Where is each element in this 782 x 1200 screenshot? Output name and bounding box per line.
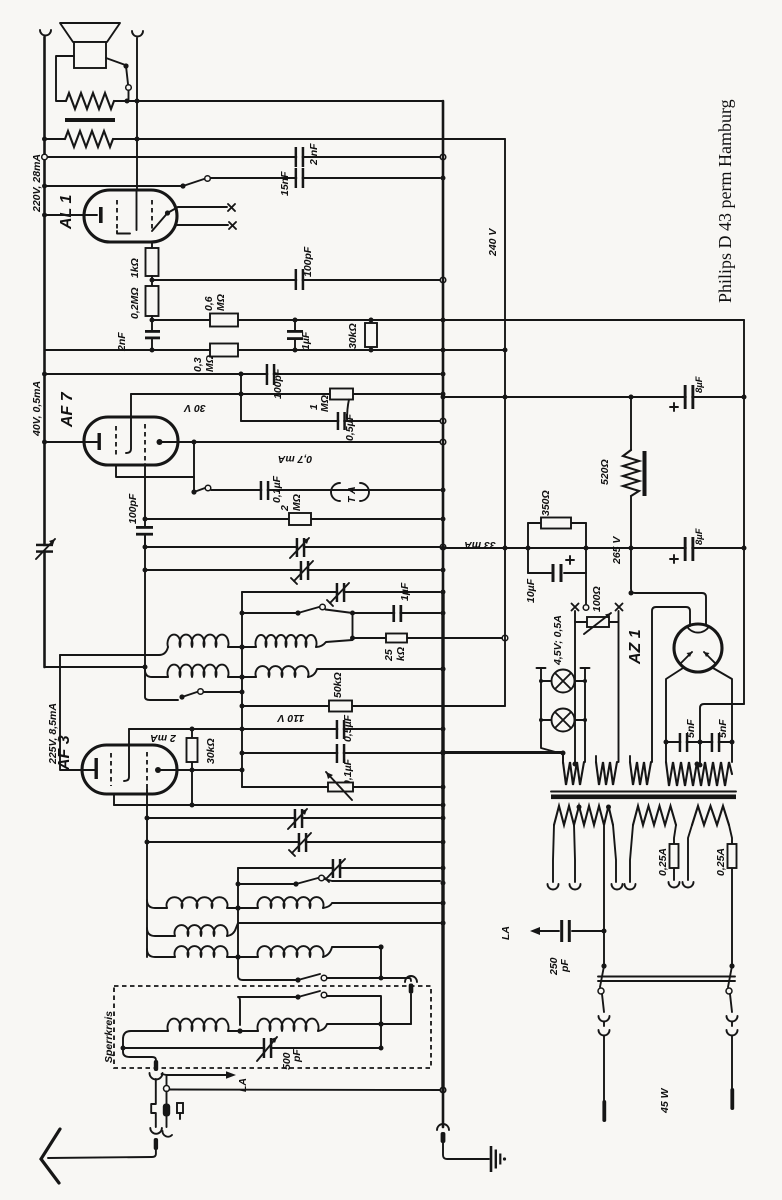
node bus443 y884 (441, 881, 446, 886)
coil L1b exit (316, 640, 353, 647)
svg-text:8µF: 8µF (694, 528, 705, 545)
wire x563 to winding (562, 753, 564, 763)
node open bus443 y442 (440, 439, 446, 445)
svg-text:1kΩ: 1kΩ (129, 258, 141, 278)
antenna socket hook (162, 1131, 172, 1137)
wire y638 (353, 637, 506, 639)
svg-text:30kΩ: 30kΩ (347, 323, 359, 349)
dashed box Sperrkreis (114, 986, 431, 1068)
fuse 0.25A left (670, 844, 679, 868)
svg-text:25: 25 (383, 649, 395, 662)
capacitor 5nF b (711, 733, 721, 752)
svg-text:0,5µF: 0,5µF (344, 413, 356, 441)
x mark a (228, 204, 235, 211)
cathode bar AF3 (95, 758, 98, 779)
node x145 y519 (143, 517, 148, 522)
coil L3b exit wire y904 (323, 903, 440, 908)
tube AZ1 (674, 624, 722, 672)
node bus443 y786 (441, 785, 446, 790)
mains pin left (602, 1100, 606, 1122)
node y742 x666 (664, 740, 669, 745)
wire y394 diode load (131, 393, 440, 395)
wire y178 (211, 177, 441, 179)
wire x145 down (144, 536, 146, 677)
switch pickup top (180, 176, 210, 189)
winding P2 primary (633, 806, 676, 825)
cup terminal 2 (570, 884, 581, 890)
node R1/switch (125, 99, 130, 104)
node x744 y548 (742, 546, 747, 551)
resistor hum coil (66, 93, 114, 109)
antenna plug pin2 (154, 1138, 158, 1150)
wire humbucking loop (56, 56, 74, 101)
grid dashes AL1 g1 (116, 200, 118, 231)
node y753 x563 (561, 751, 566, 756)
node open bus443 y280 (440, 277, 446, 283)
switch wave2 (238, 991, 381, 1025)
wire x241 394-421 (240, 374, 242, 421)
antenna side element (177, 1103, 183, 1119)
node bus443 y570 (441, 568, 446, 573)
node x137 y139 (135, 137, 140, 142)
P2 lead left (630, 825, 633, 882)
svg-text:10µF: 10µF (525, 578, 537, 603)
winding W1 heater (563, 762, 584, 785)
antenna socket cup2 (150, 1128, 162, 1134)
svg-text:0,25A: 0,25A (715, 848, 727, 876)
svg-text:LA: LA (500, 926, 512, 940)
wire AF7 grid leak (144, 464, 146, 519)
wire anode AF7 (160, 441, 441, 443)
node bus44 y139 (42, 137, 47, 142)
svg-text:15nF: 15nF (279, 171, 291, 196)
antenna feed x123 (123, 1048, 156, 1060)
LA arrowhead top (226, 1071, 236, 1079)
wire y706 (242, 705, 505, 707)
node bus505 y350 (503, 348, 508, 353)
wire rowD mid to switch1 (238, 957, 298, 980)
wire heater right x618 (618, 611, 620, 762)
switch band rowB (145, 677, 242, 700)
node bus443 y519 (441, 517, 446, 522)
wire y818 (147, 817, 440, 819)
node x238 y884 (236, 882, 241, 887)
wire y101 to bus (114, 100, 443, 102)
resistor 0.2M (146, 286, 159, 316)
ground symbol (491, 1146, 506, 1172)
wire heater AL1 a (178, 206, 227, 208)
x mark heater left (572, 604, 579, 611)
node rowB mid (239, 674, 244, 679)
coil L2b (256, 666, 309, 677)
node bracket AF3 (190, 803, 195, 808)
svg-text:MΩ: MΩ (215, 294, 227, 311)
node grid2 AL1 (165, 210, 170, 215)
node x137 y101 (135, 99, 140, 104)
label 250pF (548, 957, 571, 976)
varcap y868 (323, 859, 345, 882)
node bus443 y613 (441, 611, 446, 616)
svg-text:8µF: 8µF (694, 376, 705, 393)
svg-text:0,3: 0,3 (192, 357, 204, 372)
wire rowE mid (228, 1030, 258, 1032)
mains pin right (730, 1088, 734, 1110)
wire bus44 to x145 (45, 666, 146, 668)
node x381 y1024 (378, 1021, 383, 1026)
wire antenna column lower (155, 1113, 157, 1127)
switch pickup AF7 (191, 477, 210, 495)
coil L3b (258, 897, 324, 908)
coil L1b (255, 635, 316, 647)
label 1M (308, 395, 331, 412)
svg-text:2: 2 (279, 505, 291, 512)
coil L2a (168, 665, 229, 677)
node y729 x241 (240, 727, 245, 732)
node bus44 y186 (42, 184, 47, 189)
node bus443 y842 (441, 840, 446, 845)
node bus505 y397 (503, 395, 508, 400)
winding W2 (596, 762, 617, 785)
svg-text:kΩ: kΩ (395, 647, 407, 661)
cathode bar AF7 (98, 433, 101, 450)
cup terminal 5 (669, 882, 680, 888)
node rowD mid (235, 954, 240, 959)
switch mains left (598, 963, 607, 994)
wire y931 250pF (537, 930, 604, 932)
coil L5a (175, 946, 228, 957)
grid dashes AF7 g1 (115, 426, 117, 456)
wire y397 (443, 396, 744, 398)
wire x381 1024-1048 (380, 1024, 382, 1048)
LA arrowhead mains (530, 927, 540, 935)
anode line AL1 (136, 190, 138, 230)
switch bandset (295, 604, 325, 615)
capacitor 0.5uF af3 (336, 720, 346, 739)
resistor 520 (623, 397, 647, 548)
wire y1090 to bus (170, 1089, 441, 1092)
svg-text:2 nF: 2 nF (308, 143, 320, 166)
tuning cap left bus (36, 539, 55, 559)
W4 tap node (695, 762, 700, 767)
wire y786 volume (242, 786, 440, 788)
capacitor 100pF af7grid (266, 364, 276, 385)
rheostat 100ohm (575, 613, 618, 634)
anode left AZ1 (681, 652, 692, 663)
wire y350 (45, 349, 506, 351)
node x241 y692 (240, 690, 245, 695)
wire center tap x700 (700, 704, 744, 765)
antenna plug blob (163, 1092, 170, 1128)
wire y280 grid AL1 (152, 279, 440, 281)
P1 tap node a (577, 805, 582, 810)
capacitor 10uF (528, 564, 586, 582)
plus sign 10uF (566, 556, 574, 564)
node bracket AF7 (192, 440, 197, 445)
wire AZ1 anode lead right (713, 668, 732, 762)
plug link bottom (410, 994, 412, 1024)
anode node AF7 (157, 439, 163, 445)
svg-text:0,25A: 0,25A (657, 848, 669, 876)
node x631 y548 (629, 546, 634, 551)
plug pin bar (409, 984, 414, 994)
svg-text:4,5V; 0,5A: 4,5V; 0,5A (552, 615, 564, 666)
grid dashes AL1 g2 (151, 200, 153, 231)
right bus x744 (743, 320, 745, 704)
node y753 x241 (240, 751, 245, 756)
wire y421 (241, 420, 440, 422)
svg-text:0,7 mA: 0,7 mA (278, 453, 312, 465)
wire to LA circle (166, 1075, 168, 1085)
svg-text:1µF: 1µF (300, 331, 312, 350)
wire LA tap (162, 1074, 229, 1075)
wire to antenna arrow (48, 1150, 156, 1158)
wire x60 (60, 655, 95, 770)
node y350 x152 (150, 348, 155, 353)
resistor 1M (330, 389, 353, 400)
mains lead right bottom (731, 1022, 733, 1088)
grid dashes AF3 g2 (146, 752, 148, 789)
node y280 (150, 278, 155, 283)
node x147 y842 (145, 840, 150, 845)
mains plug cups right (727, 1016, 738, 1036)
node x381 y1048 (379, 1046, 384, 1051)
wire y613 b (326, 610, 441, 614)
node bus443 y753 (441, 751, 446, 756)
svg-text:100pF: 100pF (302, 246, 314, 277)
wire AZ1 filament return (652, 607, 690, 762)
node y729 x192 (190, 727, 195, 732)
resistor 0.3M (210, 344, 238, 357)
wire rowC mid (227, 907, 258, 909)
lamp vertical left (537, 668, 560, 753)
tube AL1 envelope (84, 190, 177, 242)
node x631 y397 (629, 395, 634, 400)
capacitor 5nF a (679, 733, 689, 752)
wire y655 osc feed (60, 654, 159, 656)
capacitor 8uF lower (684, 537, 695, 561)
svg-text:AZ 1: AZ 1 (627, 629, 644, 665)
svg-text:T A: T A (346, 486, 358, 503)
tube AF3 envelope (82, 745, 177, 794)
switch speaker (106, 58, 131, 101)
node open bus443 y157 (440, 154, 446, 160)
wire field coil to 240V bus (113, 138, 505, 140)
W1 lead left (562, 752, 564, 762)
node y947 x381 (378, 944, 383, 949)
cup terminal 4 (625, 884, 636, 890)
mains lead right lower (730, 994, 732, 1012)
wire y320 long (152, 319, 744, 321)
node y394 x241 (239, 392, 244, 397)
coil L6b exit wire y1024 (318, 1024, 411, 1031)
svg-text:Sperrkreis: Sperrkreis (103, 1011, 115, 1063)
capacitor 100pF top (295, 269, 305, 290)
wire AL1 cathode chain (151, 242, 153, 248)
svg-text:520Ω: 520Ω (599, 459, 611, 485)
node open bus443 y547 (440, 544, 446, 550)
winding W4 HV (666, 762, 732, 786)
node bus443 y752 (441, 750, 446, 755)
svg-text:220V, 28mA: 220V, 28mA (31, 154, 43, 213)
coil L4a entry (147, 928, 175, 936)
node y742 x700 (698, 740, 703, 745)
node bus44 y215 (42, 213, 47, 218)
wire y157 (45, 156, 441, 158)
P1 tap node b (606, 805, 611, 810)
node bus443 y374 (441, 372, 446, 377)
node bus443 y592 (441, 590, 446, 595)
svg-text:5nF: 5nF (717, 719, 729, 738)
wire rowA mid (228, 646, 256, 648)
x mark b (229, 222, 236, 229)
node x145 y547 (143, 545, 148, 550)
anode node AF3 (155, 767, 161, 773)
node 1uF bottom (293, 348, 298, 353)
wire heater AL1 b (177, 224, 228, 226)
wire y101 corner into bus (440, 100, 443, 102)
switch mains right (726, 963, 735, 994)
node bus44 y374 (42, 372, 47, 377)
capacitor 100pF gridleak (136, 519, 153, 547)
svg-text:240 V: 240 V (487, 228, 499, 257)
wire x238 (237, 868, 239, 957)
wire AL1 coupling vertical (151, 316, 153, 330)
capacitor 8uF top (684, 385, 695, 409)
node open bus44 y157 (42, 154, 48, 160)
wire rowD mid (227, 956, 258, 958)
grid dashes AF3 g1 (110, 753, 112, 786)
node bus443 y922 (440, 920, 445, 925)
capacitor 0.1uF af3 (336, 744, 346, 763)
node x700 y765 (698, 763, 703, 768)
node x123 y1048 (121, 1046, 126, 1051)
wire speaker line x137 (136, 38, 138, 190)
W3 lead left (629, 756, 631, 762)
wire AF7 grid top (130, 394, 132, 417)
wire cathode lead AL1 (45, 214, 98, 216)
svg-text:MΩ: MΩ (204, 355, 216, 372)
node bus443 y490 (441, 488, 446, 493)
node bus443 y904 (440, 900, 445, 905)
jack TA left (331, 483, 340, 501)
node y613 x352 (350, 611, 355, 616)
coil L3a entry (147, 900, 167, 908)
P1 lead left (553, 825, 554, 882)
node y742 x732 (730, 740, 735, 745)
coil L2a entry (145, 670, 168, 677)
node rowC mid (235, 905, 240, 910)
antenna arrow (41, 1129, 60, 1183)
coil L3a (167, 897, 228, 908)
wire x352 613-638 (352, 613, 354, 638)
svg-text:350Ω: 350Ω (540, 490, 552, 516)
svg-text:5nF: 5nF (685, 719, 697, 738)
wire y1048 (123, 1047, 381, 1049)
coil L5a entry (147, 949, 175, 957)
varcap y818 (288, 809, 307, 829)
loudspeaker LS (60, 23, 120, 68)
P3 lead right fuse (729, 825, 732, 966)
center line AF3 (124, 745, 129, 781)
svg-text:0,5µF: 0,5µF (342, 714, 354, 742)
switch band rowC (238, 875, 440, 886)
jack TA right (360, 483, 369, 501)
wire wiper 100ohm (585, 573, 587, 604)
label 0.6M (203, 294, 227, 311)
transformer core (551, 792, 736, 800)
svg-text:1µF: 1µF (399, 582, 411, 601)
wire y548 265V (443, 547, 744, 549)
terminal hook left (40, 30, 51, 36)
wire to ground (443, 1143, 489, 1159)
node bus443 y868 (441, 866, 446, 871)
node bus443 y394 (441, 392, 446, 397)
antenna jack bracket (151, 1104, 155, 1113)
wire y729 (129, 728, 440, 730)
wire AF7 cathode lead (45, 441, 98, 443)
P3 lead left (688, 825, 692, 880)
node 1uF top (293, 318, 298, 323)
W2 lead left (595, 756, 597, 762)
tube AF7 envelope (84, 417, 178, 465)
node LA circle (164, 1086, 170, 1092)
wire y613 a (242, 612, 298, 614)
node wiper circle (583, 605, 589, 611)
wire bus44 to field coil (45, 138, 66, 140)
P1 lead right to switch (603, 825, 605, 966)
node bus443 y320 (441, 318, 446, 323)
plus sign 8uF lower (670, 555, 678, 563)
label 25k (383, 647, 407, 662)
bracket AF7 (116, 442, 194, 477)
capacitor 2nF coupling (145, 330, 160, 350)
capacitor 15nF (295, 168, 305, 188)
transformer core bar (65, 118, 115, 122)
mains lead left bottom (603, 1022, 605, 1100)
filter loop 350ohm (528, 523, 586, 573)
bracket AF3 (114, 770, 192, 805)
svg-text:110 V: 110 V (277, 712, 305, 724)
resistor 0.6M (210, 314, 238, 327)
resistor 2M (289, 513, 311, 525)
wire 5nF row (666, 741, 732, 743)
filament notch AZ1 (687, 627, 709, 633)
resistor field coil (65, 131, 113, 147)
resistor 30k screen (365, 320, 377, 350)
wire x381 947-978 (380, 947, 382, 978)
node x241 y706 (240, 704, 245, 709)
wire heater left x575 (574, 611, 576, 762)
node bus443 y729 (441, 727, 446, 732)
svg-text:2 mA: 2 mA (150, 732, 177, 744)
node open bus443 y421 (440, 418, 446, 424)
node bus443 y818 (441, 816, 446, 821)
svg-text:MΩ: MΩ (319, 395, 331, 412)
node x145 y667 (143, 665, 148, 670)
node open bus505 y638 (502, 635, 508, 641)
capacitor 2nF (295, 147, 305, 167)
wire AF3 gridleak x147 (146, 789, 148, 957)
cathode bar AL1 (99, 207, 103, 223)
lamp 1 (539, 670, 587, 693)
node y770 x241 (240, 768, 245, 773)
svg-text:AL 1: AL 1 (58, 195, 75, 230)
wire y519 (145, 518, 440, 520)
svg-text:100pF: 100pF (127, 493, 139, 524)
svg-text:0,6: 0,6 (203, 296, 215, 311)
node y374 x241 (239, 372, 244, 377)
node 30k bottom (369, 348, 374, 353)
